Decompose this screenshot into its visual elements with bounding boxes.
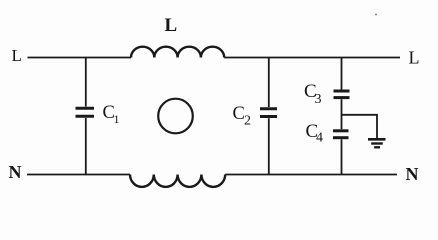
svg-text:L: L [409, 48, 420, 68]
wire C1 lower lead [85, 118, 87, 175]
capacitor C3 [334, 91, 350, 98]
inductor (bottom winding of common-mode choke) [130, 175, 225, 187]
value label C1 [103, 103, 120, 126]
svg-text:L: L [12, 46, 22, 65]
wire C2 upper lead [268, 58, 270, 108]
capacitor C4 [333, 131, 349, 138]
svg-text:2: 2 [244, 114, 251, 129]
wire C2 lower lead [268, 118, 270, 174]
wire C4 lower lead [341, 139, 343, 174]
value label C3 [304, 81, 322, 107]
value label C4 [306, 121, 324, 146]
wire to ground from C3-C4 midpoint [342, 115, 378, 138]
wire top-right segment L line [224, 57, 400, 59]
wire C3 upper lead [341, 58, 343, 90]
value label C2 [233, 104, 252, 129]
wire top-left segment L line [28, 57, 132, 59]
wire bottom-right segment N line [225, 174, 397, 176]
speck (scan artifact) [375, 14, 377, 16]
svg-text:1: 1 [114, 112, 120, 126]
value label L of top inductor [165, 15, 178, 36]
svg-text:N: N [406, 164, 419, 184]
svg-text:C: C [233, 104, 245, 124]
svg-text:4: 4 [316, 131, 323, 146]
core circle of common-mode choke [158, 99, 193, 134]
wire bottom-left segment N line [27, 174, 130, 176]
node N (right terminal label) [406, 164, 419, 184]
wire C1 upper lead [85, 58, 87, 107]
ground [368, 139, 386, 147]
svg-text:3: 3 [315, 92, 322, 107]
node L (left terminal label) [12, 46, 22, 65]
node N (left terminal label) [9, 162, 22, 182]
capacitor C2 [260, 109, 277, 117]
node L (right terminal label) [409, 48, 420, 68]
inductor L (top winding) [131, 47, 224, 58]
svg-text:N: N [9, 162, 22, 182]
svg-text:L: L [165, 15, 178, 36]
wire between C3 and C4 [341, 99, 343, 129]
capacitor C1 [76, 108, 95, 116]
